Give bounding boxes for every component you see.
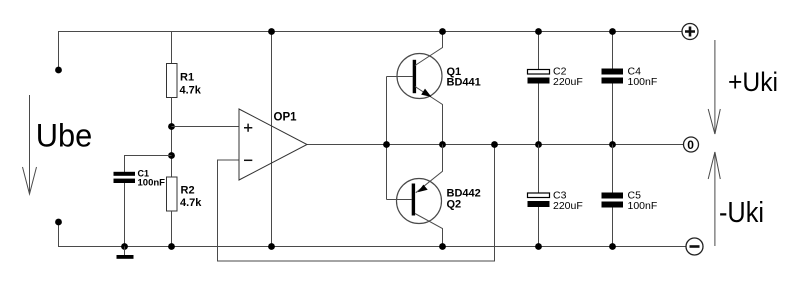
capacitor C3 xyxy=(528,193,550,207)
node Q1 collector on rail xyxy=(439,28,446,35)
arrow -Uki xyxy=(708,152,720,246)
terminal minus xyxy=(686,238,703,255)
node R1/R2 divider xyxy=(168,123,175,130)
wire to op-amp + input xyxy=(172,126,240,128)
wire input stub bottom xyxy=(58,222,60,247)
wire inverting input and feedback loop xyxy=(218,145,495,262)
svg-text:Ube: Ube xyxy=(36,118,93,154)
node op-amp V- xyxy=(268,243,275,250)
terminal zero xyxy=(684,137,699,152)
wire R1 bottom to R2 top xyxy=(171,98,173,178)
node feedback tap xyxy=(491,141,498,148)
terminal plus xyxy=(682,24,698,40)
svg-text:0: 0 xyxy=(687,138,694,152)
capacitor C5 xyxy=(602,193,624,208)
wire C2 leads xyxy=(538,32,540,145)
resistor R1 xyxy=(167,64,178,98)
capacitor C4 xyxy=(602,69,624,84)
node C3 bottom xyxy=(535,243,542,250)
wire input stub top xyxy=(58,32,60,71)
capacitor C1 xyxy=(114,172,136,183)
node R2 bottom xyxy=(168,243,175,250)
wire op-amp supply vertical xyxy=(271,32,273,247)
node input bottom xyxy=(55,219,62,226)
svg-text:100nF: 100nF xyxy=(628,200,658,212)
node C1 bottom xyxy=(121,243,128,250)
svg-text:+Uki: +Uki xyxy=(728,67,778,97)
svg-text:BD441: BD441 xyxy=(447,77,481,89)
wire R2 bottom lead xyxy=(171,211,173,247)
node input top xyxy=(55,67,62,74)
wire transistor base column xyxy=(387,77,413,200)
svg-text:4.7k: 4.7k xyxy=(180,197,202,209)
node C2 bottom xyxy=(535,141,542,148)
arrow Ube xyxy=(23,95,37,194)
node Q1 emitter on mid rail xyxy=(439,141,446,148)
wire C4 leads xyxy=(612,32,614,145)
op-amp plus mark xyxy=(244,124,252,132)
transistor Q2 xyxy=(397,145,443,247)
svg-text:220uF: 220uF xyxy=(553,76,583,88)
arrow +Uki xyxy=(708,40,720,134)
transistor Q1 xyxy=(397,32,443,145)
svg-text:Q2: Q2 xyxy=(447,199,462,211)
node C1 tap xyxy=(168,152,175,159)
svg-text:100nF: 100nF xyxy=(628,76,658,88)
node C4 bottom xyxy=(609,141,616,148)
svg-text:220uF: 220uF xyxy=(553,200,583,212)
wire top rail xyxy=(58,31,682,33)
svg-text:R2: R2 xyxy=(181,185,195,197)
wire C1 branch xyxy=(125,156,172,247)
node C5 bottom xyxy=(609,243,616,250)
node op-amp V+ xyxy=(268,28,275,35)
wire C3 leads xyxy=(538,145,540,247)
node C2 top xyxy=(535,28,542,35)
node base junction xyxy=(383,141,390,148)
svg-text:4.7k: 4.7k xyxy=(180,85,202,97)
wire bottom rail xyxy=(58,246,686,248)
svg-text:100nF: 100nF xyxy=(138,178,166,188)
op-amp U1 triangle xyxy=(239,109,307,180)
op-amp minus mark xyxy=(244,159,252,161)
wire R1 top lead xyxy=(171,32,173,64)
wire middle rail (0V) xyxy=(307,144,684,146)
svg-text:-Uki: -Uki xyxy=(719,197,764,229)
resistor R2 xyxy=(167,177,178,211)
node C4 top xyxy=(609,28,616,35)
wire C5 leads xyxy=(612,145,614,247)
ground xyxy=(117,255,134,259)
capacitor C2 xyxy=(528,70,550,84)
svg-text:R1: R1 xyxy=(180,72,194,84)
svg-text:OP1: OP1 xyxy=(274,112,298,124)
node Q2 collector on bottom rail xyxy=(439,243,446,250)
wire ground stub xyxy=(124,247,126,256)
